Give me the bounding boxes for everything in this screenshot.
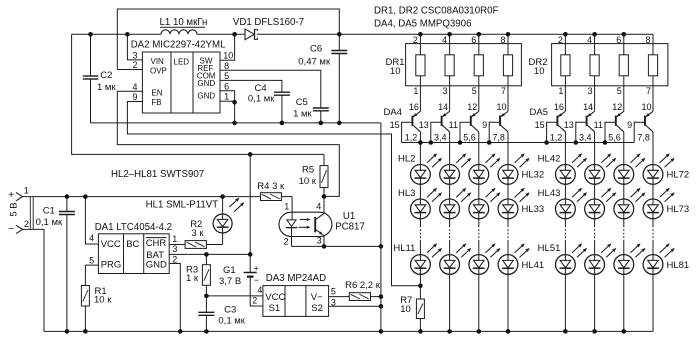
svg-text:10 к: 10 к bbox=[94, 295, 112, 306]
LED column 3 row 2 bbox=[469, 188, 501, 219]
junction G1 BAT bbox=[248, 252, 253, 257]
resistor DR2.4 bbox=[645, 34, 657, 111]
svg-text:14: 14 bbox=[438, 102, 448, 112]
svg-text:VCC: VCC bbox=[101, 239, 121, 250]
svg-text:4: 4 bbox=[442, 35, 447, 45]
svg-text:3,4: 3,4 bbox=[434, 133, 447, 143]
svg-text:10: 10 bbox=[223, 51, 233, 61]
battery G1 bbox=[219, 254, 263, 306]
svg-text:8: 8 bbox=[224, 61, 229, 71]
junction base rail 6 bbox=[574, 140, 579, 145]
capacitor C4 bbox=[248, 83, 290, 123]
IC DA2 MIC2297-42YML bbox=[131, 39, 226, 113]
junction EN R5 U1c bbox=[322, 194, 327, 199]
svg-text:6: 6 bbox=[471, 35, 476, 45]
diode VD1 bbox=[233, 17, 304, 40]
junction R3 C3 VCC3 bbox=[204, 294, 209, 299]
pin 6 GND bbox=[220, 81, 235, 102]
svg-text:0,1 мк: 0,1 мк bbox=[218, 315, 245, 326]
svg-text:13: 13 bbox=[564, 120, 574, 130]
pin 5 Vminus wire bbox=[329, 287, 350, 297]
svg-text:OVP: OVP bbox=[150, 67, 167, 76]
junction LED col 1 gnd bbox=[418, 329, 423, 334]
svg-text:FB: FB bbox=[151, 98, 161, 107]
junction C1 gnd bbox=[65, 329, 70, 334]
svg-text:5,6: 5,6 bbox=[608, 133, 621, 143]
junction base rail 4 bbox=[487, 140, 492, 145]
svg-text:3: 3 bbox=[443, 86, 448, 96]
connector pin 2 bbox=[8, 219, 44, 331]
wire ground line bbox=[91, 122, 381, 124]
svg-text:R6 2,2 к: R6 2,2 к bbox=[345, 280, 381, 291]
junction DR col 4 bbox=[506, 32, 511, 37]
svg-text:0,47 мк: 0,47 мк bbox=[298, 56, 331, 67]
junction LED col 4 gnd bbox=[506, 329, 511, 334]
IC DA1 LTC4054-4.2 bbox=[95, 222, 172, 273]
svg-text:DA3 MP24AD: DA3 MP24AD bbox=[266, 273, 326, 284]
junction battery feed bbox=[248, 152, 253, 157]
svg-text:2: 2 bbox=[558, 35, 563, 45]
LED column 6 row 2 bbox=[585, 188, 617, 219]
junction LED col 3 gnd bbox=[477, 329, 482, 334]
svg-text:DA2 MIC2297-42YML: DA2 MIC2297-42YML bbox=[131, 39, 226, 50]
svg-text:S2: S2 bbox=[311, 303, 323, 314]
junction C4 gnd bbox=[280, 121, 285, 126]
svg-text:VCC: VCC bbox=[265, 292, 285, 303]
svg-text:7: 7 bbox=[646, 86, 651, 96]
svg-text:C5: C5 bbox=[296, 97, 308, 108]
capacitor C3 bbox=[198, 296, 245, 332]
svg-text:12: 12 bbox=[612, 102, 622, 112]
svg-text:2: 2 bbox=[172, 254, 177, 264]
svg-text:10: 10 bbox=[496, 102, 506, 112]
wire LED column 6 bbox=[594, 184, 596, 331]
inductor L1 bbox=[160, 17, 208, 34]
pin 3 S2 wire bbox=[329, 297, 381, 307]
capacitor C5 bbox=[293, 97, 329, 123]
junction base rail 2 bbox=[429, 140, 434, 145]
wire LED column 4 bbox=[507, 184, 509, 331]
junction DR col 3 bbox=[477, 32, 482, 37]
svg-text:11: 11 bbox=[594, 120, 603, 130]
LED column 2 row 1 bbox=[440, 153, 472, 184]
svg-text:13: 13 bbox=[419, 120, 429, 130]
svg-text:L1 10 мкГн: L1 10 мкГн bbox=[160, 17, 208, 28]
pin 4 opto collector bbox=[316, 196, 324, 213]
LED HL42 bbox=[538, 153, 587, 184]
wire LED column 8 bbox=[652, 184, 654, 331]
connector pin 1 +5V bbox=[8, 186, 260, 201]
LED column 2 row 2 bbox=[440, 188, 472, 219]
svg-text:VIN: VIN bbox=[151, 57, 165, 66]
svg-text:10: 10 bbox=[641, 102, 651, 112]
svg-text:5: 5 bbox=[331, 287, 336, 297]
svg-text:HL81: HL81 bbox=[667, 260, 690, 271]
svg-text:HL33: HL33 bbox=[522, 204, 545, 215]
LED HL81 bbox=[643, 243, 689, 274]
LED column 7 row 3 bbox=[614, 243, 646, 274]
svg-text:C1: C1 bbox=[43, 205, 55, 216]
wire LED column 2 bbox=[449, 184, 451, 331]
svg-text:G1: G1 bbox=[223, 265, 236, 276]
svg-text:7,8: 7,8 bbox=[637, 133, 650, 143]
LED HL2 bbox=[398, 153, 442, 184]
pin 10 SW bbox=[220, 34, 235, 60]
junction pin6 pin1 bbox=[232, 100, 237, 105]
junction base rail 7 bbox=[603, 140, 608, 145]
svg-text:5: 5 bbox=[617, 86, 622, 96]
junction C1 top bbox=[65, 194, 70, 199]
svg-text:1: 1 bbox=[172, 234, 177, 244]
junction DR col 5 bbox=[563, 32, 568, 37]
svg-text:VD1 DFLS160-7: VD1 DFLS160-7 bbox=[233, 17, 304, 28]
svg-text:4: 4 bbox=[316, 202, 321, 212]
svg-text:V−: V− bbox=[311, 292, 323, 303]
svg-text:9: 9 bbox=[482, 120, 487, 130]
svg-text:2: 2 bbox=[132, 60, 137, 70]
junction opto return gnd bbox=[379, 244, 384, 249]
resistor network DR2 box bbox=[552, 44, 668, 86]
svg-text:GND: GND bbox=[197, 79, 215, 88]
junction FB R7 bbox=[418, 284, 423, 289]
svg-text:3: 3 bbox=[588, 86, 593, 96]
capacitor C6 bbox=[298, 34, 347, 123]
svg-text:1,2: 1,2 bbox=[405, 133, 418, 143]
junction C5 gnd bbox=[319, 121, 324, 126]
LED HL3 bbox=[398, 188, 442, 219]
svg-text:R5: R5 bbox=[302, 165, 314, 176]
svg-text:PRG: PRG bbox=[101, 260, 122, 271]
LED column 3 row 1 bbox=[469, 153, 501, 184]
svg-text:1: 1 bbox=[413, 86, 418, 96]
svg-text:4: 4 bbox=[132, 82, 137, 92]
junction U1 pin3 bbox=[322, 244, 327, 249]
junction LED col 7 gnd bbox=[622, 329, 627, 334]
wire ground drop bbox=[380, 123, 382, 332]
resistor DR2.3 bbox=[616, 34, 628, 111]
wire LED column 1 bbox=[419, 184, 421, 299]
resistor DR1.1 bbox=[413, 34, 425, 111]
svg-text:+: + bbox=[8, 190, 14, 201]
svg-text:HL43: HL43 bbox=[538, 188, 561, 199]
junction DA1 gnd bbox=[178, 329, 183, 334]
junction C3 gnd bbox=[204, 329, 209, 334]
resistor DR1.3 bbox=[471, 34, 483, 111]
svg-text:0,1 мк: 0,1 мк bbox=[248, 93, 275, 104]
LED HL11 bbox=[393, 243, 442, 275]
pin 1 opto anode bbox=[284, 197, 292, 220]
junction base rail 3 bbox=[458, 140, 463, 145]
svg-text:5: 5 bbox=[89, 256, 94, 266]
svg-text:5 В: 5 В bbox=[9, 202, 20, 216]
svg-text:+: + bbox=[254, 263, 259, 273]
pin 1 CHRG bbox=[169, 234, 185, 244]
junction base rail 5 bbox=[544, 140, 549, 145]
junction C6 gnd bbox=[337, 121, 342, 126]
junction S2 gnd bbox=[379, 304, 384, 309]
svg-text:DA4, DA5 MMPQ3906: DA4, DA5 MMPQ3906 bbox=[374, 19, 471, 30]
resistor R1 bbox=[81, 286, 112, 332]
svg-text:6: 6 bbox=[616, 35, 621, 45]
svg-text:1: 1 bbox=[24, 186, 29, 196]
junction SW-L1-VD1 bbox=[232, 32, 237, 37]
svg-text:8: 8 bbox=[500, 35, 505, 45]
svg-text:HL1 SML-P11VT: HL1 SML-P11VT bbox=[146, 200, 219, 211]
wire VCC DA3 bbox=[206, 295, 263, 297]
junction GND pin1 bbox=[232, 121, 237, 126]
pin 5 PRG bbox=[85, 256, 98, 286]
wire LED column 3 bbox=[478, 184, 480, 331]
pin 5 COM wire bbox=[220, 71, 282, 92]
svg-text:4: 4 bbox=[257, 285, 262, 295]
svg-text:0,1 мк: 0,1 мк bbox=[36, 217, 63, 228]
junction DR col 6 bbox=[592, 32, 597, 37]
svg-text:1: 1 bbox=[284, 202, 289, 212]
junction LED col 5 gnd bbox=[563, 329, 568, 334]
svg-text:6: 6 bbox=[224, 81, 229, 91]
svg-text:4: 4 bbox=[89, 233, 94, 243]
LED column 6 row 1 bbox=[585, 153, 617, 184]
junction R3 BAT bbox=[204, 252, 209, 257]
svg-text:5: 5 bbox=[472, 86, 477, 96]
wire LED column 7 bbox=[623, 184, 625, 331]
resistor R2 bbox=[185, 219, 223, 249]
junction gnd drop bbox=[379, 329, 384, 334]
junction LED col 6 gnd bbox=[592, 329, 597, 334]
svg-text:DR1, DR2 CSC08A0310R0F: DR1, DR2 CSC08A0310R0F bbox=[374, 6, 498, 17]
svg-text:1 мк: 1 мк bbox=[293, 109, 312, 120]
svg-text:3,4: 3,4 bbox=[579, 133, 592, 143]
transistor DA4.4 bbox=[482, 102, 508, 164]
transistor DA4.3 bbox=[449, 102, 479, 164]
svg-text:DA4: DA4 bbox=[384, 107, 402, 118]
svg-text:HL11: HL11 bbox=[393, 243, 415, 254]
svg-text:GND: GND bbox=[146, 260, 167, 271]
svg-text:C6: C6 bbox=[310, 44, 322, 55]
svg-text:7: 7 bbox=[501, 86, 506, 96]
transistor DA4.1 bbox=[390, 102, 421, 164]
svg-text:R4 3 к: R4 3 к bbox=[257, 181, 285, 192]
transistor DA5.4 bbox=[627, 102, 653, 164]
pin 8 REF wire bbox=[220, 61, 321, 108]
wire LED column 5 bbox=[564, 184, 566, 331]
resistor R6 bbox=[345, 280, 381, 301]
resistor DR2.2 bbox=[587, 34, 599, 111]
svg-text:3: 3 bbox=[172, 244, 177, 254]
connector body bbox=[29, 197, 31, 230]
svg-text:15: 15 bbox=[535, 120, 545, 130]
pin 3 BAT wire bbox=[169, 244, 250, 254]
transistor DA5.1 bbox=[535, 102, 566, 164]
wire main supply top bbox=[72, 33, 161, 35]
svg-text:PC817: PC817 bbox=[335, 222, 365, 233]
transistor DA4.2 bbox=[419, 102, 450, 164]
svg-text:1 к: 1 к bbox=[186, 273, 199, 284]
svg-text:10: 10 bbox=[400, 304, 411, 315]
svg-text:U1: U1 bbox=[343, 211, 355, 222]
wire bottom ground rail bbox=[44, 330, 653, 332]
svg-text:3 к: 3 к bbox=[191, 228, 204, 239]
svg-text:C2: C2 bbox=[100, 70, 112, 81]
svg-text:DA5: DA5 bbox=[530, 107, 548, 118]
svg-text:HL73: HL73 bbox=[667, 204, 690, 215]
transistor DA5.3 bbox=[594, 102, 624, 164]
junction DR col 7 bbox=[622, 32, 627, 37]
svg-text:11: 11 bbox=[449, 120, 458, 130]
pin 2 GND wire bbox=[169, 254, 180, 331]
svg-text:16: 16 bbox=[409, 102, 419, 112]
LED column 7 row 1 bbox=[614, 153, 646, 184]
LED HL33 bbox=[498, 188, 544, 219]
LED column 7 row 2 bbox=[614, 188, 646, 219]
svg-text:HL42: HL42 bbox=[538, 153, 561, 164]
junction VD1 out bbox=[337, 32, 342, 37]
svg-text:HL41: HL41 bbox=[522, 260, 545, 271]
resistor network DR1 box bbox=[406, 44, 522, 86]
svg-text:DA1 LTC4054-4.2: DA1 LTC4054-4.2 bbox=[95, 222, 172, 233]
svg-text:3,7 В: 3,7 В bbox=[219, 276, 241, 287]
svg-text:LED: LED bbox=[174, 58, 190, 67]
transistor DA5.2 bbox=[564, 102, 595, 164]
svg-text:8: 8 bbox=[645, 35, 650, 45]
resistor R3 bbox=[186, 254, 210, 296]
svg-text:9: 9 bbox=[132, 92, 137, 102]
junction R6 gnd bbox=[379, 294, 384, 299]
junction C2 top bbox=[88, 32, 93, 37]
capacitor C1 bbox=[36, 197, 75, 332]
LED HL43 bbox=[538, 188, 587, 219]
resistor R5 bbox=[299, 154, 328, 196]
pin 3 VIN bbox=[127, 34, 142, 60]
junction base rail 1 bbox=[418, 140, 423, 145]
capacitor C2 bbox=[83, 34, 117, 123]
resistor DR1.4 bbox=[500, 34, 512, 111]
svg-text:2: 2 bbox=[284, 236, 289, 246]
wire OVP top loop bbox=[117, 9, 339, 70]
LED HL32 bbox=[498, 153, 544, 184]
LED HL1 bbox=[213, 197, 244, 245]
svg-text:HL3: HL3 bbox=[398, 188, 415, 199]
svg-text:HL51: HL51 bbox=[538, 243, 561, 254]
pin 4 VCC wire bbox=[85, 197, 98, 244]
junction R1 gnd bbox=[83, 329, 88, 334]
svg-text:EN: EN bbox=[151, 89, 162, 98]
LED column 2 row 3 bbox=[440, 243, 472, 274]
svg-text:2: 2 bbox=[413, 35, 418, 45]
svg-text:3: 3 bbox=[317, 236, 322, 246]
pin 1 GND bbox=[220, 92, 235, 123]
svg-text:3: 3 bbox=[331, 297, 336, 307]
opto transistor bbox=[315, 214, 324, 247]
svg-text:1 мк: 1 мк bbox=[97, 82, 116, 93]
pin 4 EN wire bbox=[117, 82, 339, 196]
opto LED bbox=[286, 218, 311, 246]
svg-text:9: 9 bbox=[627, 120, 632, 130]
junction LED col 2 gnd bbox=[447, 329, 452, 334]
optocoupler U1 PC817 bbox=[279, 211, 365, 237]
svg-text:HL2: HL2 bbox=[398, 153, 415, 164]
svg-text:1: 1 bbox=[558, 86, 563, 96]
svg-text:2: 2 bbox=[24, 219, 29, 229]
junction VCC DA1 bbox=[83, 194, 88, 199]
LED HL72 bbox=[643, 153, 689, 184]
svg-text:10: 10 bbox=[390, 66, 401, 77]
junction VIN bbox=[125, 32, 130, 37]
svg-text:1,2: 1,2 bbox=[550, 133, 563, 143]
svg-text:HL32: HL32 bbox=[522, 170, 545, 181]
resistor R7 bbox=[400, 295, 424, 331]
svg-text:5,6: 5,6 bbox=[463, 133, 476, 143]
svg-text:BC: BC bbox=[126, 239, 139, 250]
svg-text:1: 1 bbox=[224, 92, 229, 102]
svg-text:S1: S1 bbox=[269, 303, 281, 314]
svg-text:7,8: 7,8 bbox=[492, 133, 505, 143]
svg-text:HL2–HL81 SWTS907: HL2–HL81 SWTS907 bbox=[111, 169, 204, 180]
LED HL41 bbox=[498, 243, 544, 274]
wire left battery rail bbox=[72, 34, 324, 154]
svg-text:10 к: 10 к bbox=[299, 176, 317, 187]
svg-text:2: 2 bbox=[252, 296, 257, 306]
LED HL51 bbox=[538, 243, 587, 275]
resistor R4 bbox=[257, 181, 292, 201]
LED HL73 bbox=[643, 188, 689, 219]
svg-text:12: 12 bbox=[467, 102, 477, 112]
svg-text:15: 15 bbox=[390, 120, 400, 130]
svg-text:4: 4 bbox=[587, 35, 592, 45]
junction HL1 anode bbox=[220, 194, 225, 199]
svg-text:C3: C3 bbox=[224, 305, 236, 316]
wire opto emitter return bbox=[292, 245, 381, 247]
svg-text:HL72: HL72 bbox=[667, 170, 690, 181]
svg-text:GND: GND bbox=[197, 91, 215, 100]
svg-text:16: 16 bbox=[554, 102, 564, 112]
LED column 6 row 3 bbox=[585, 243, 617, 274]
pin 9 FB wire bbox=[127, 92, 420, 286]
svg-text:5: 5 bbox=[224, 71, 229, 81]
resistor DR2.1 bbox=[558, 34, 570, 111]
svg-text:−: − bbox=[254, 275, 259, 285]
wire battery plus drop bbox=[249, 154, 251, 254]
resistor DR1.2 bbox=[442, 34, 454, 111]
svg-text:−: − bbox=[8, 224, 14, 235]
wire base rail bbox=[402, 142, 635, 144]
svg-text:14: 14 bbox=[583, 102, 593, 112]
pin 2 OVP bbox=[117, 60, 142, 70]
IC DA3 MP24AD bbox=[252, 273, 328, 316]
svg-text:10: 10 bbox=[534, 66, 545, 77]
junction DR col 1 bbox=[418, 32, 423, 37]
LED column 3 row 3 bbox=[469, 243, 501, 274]
svg-text:CHR: CHR bbox=[146, 238, 167, 249]
junction DR col 2 bbox=[447, 32, 452, 37]
